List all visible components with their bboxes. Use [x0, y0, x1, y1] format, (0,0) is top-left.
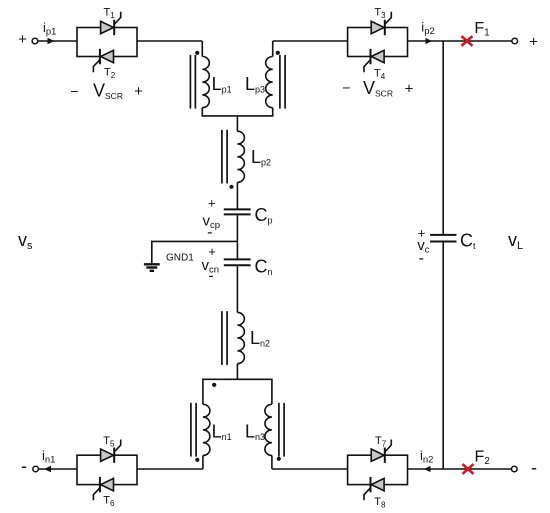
- wire right bus upper: [442, 41, 444, 234]
- capacitor Cn: [224, 258, 251, 260]
- dot Lp2 polarity: [229, 185, 233, 189]
- thyristor T8: [371, 478, 384, 490]
- current arrow i_n2: [424, 466, 431, 472]
- dot Ln3 bottom polarity: [277, 457, 281, 461]
- dot Lp1 polarity: [195, 51, 199, 55]
- core Lp2: [221, 130, 223, 184]
- wire Ln3 bottom: [271, 456, 273, 470]
- thyristor T2: [101, 50, 114, 62]
- SCR pair box (T3/T4): [348, 28, 408, 57]
- thyristor T5: [101, 449, 114, 461]
- SCR pair box (T1/T2): [77, 28, 137, 57]
- thyristor T6: [101, 478, 114, 490]
- svg-text:+: +: [529, 34, 538, 51]
- svg-text:-: -: [419, 250, 424, 267]
- thyristor T7: [371, 449, 384, 461]
- terminal circle bottom-right: [512, 466, 518, 472]
- svg-text:+: +: [208, 244, 216, 259]
- current arrow i_n1: [44, 466, 51, 472]
- wire top-left input: [38, 40, 77, 42]
- core Ln1: [190, 403, 192, 457]
- core Ln3: [278, 403, 280, 457]
- dot Lp3 polarity: [276, 51, 280, 55]
- wire Ln1 bottom: [202, 456, 204, 470]
- wire box1 to transformer: [137, 40, 202, 42]
- wire Ln1 to box2: [137, 468, 203, 470]
- dot Ln1 bottom polarity: [195, 458, 199, 462]
- wire Cp to Cn: [236, 215, 238, 258]
- wire ground tap: [152, 241, 238, 263]
- thyristor T4: [371, 50, 384, 62]
- svg-text:+: +: [405, 81, 414, 98]
- svg-text:GND1: GND1: [166, 252, 194, 263]
- svg-text:-: -: [531, 458, 537, 478]
- svg-text:+: +: [18, 31, 27, 48]
- current arrow i_p2: [426, 38, 433, 44]
- wire box4 to terminal: [408, 468, 512, 470]
- wire bottom transformer T: [203, 379, 272, 404]
- inductor Ln3: [265, 404, 272, 455]
- capacitor Cp: [224, 208, 251, 210]
- core Lp3: [279, 55, 281, 109]
- wire Ln2 to bottom T: [236, 364, 238, 380]
- SCR pair box (T5/T6): [77, 455, 137, 484]
- svg-text:-: -: [207, 224, 212, 241]
- core Ln2: [221, 311, 223, 365]
- thyristor T3: [371, 21, 384, 33]
- svg-text:−: −: [70, 83, 78, 99]
- svg-text:-: -: [21, 456, 27, 476]
- dot Ln1 top polarity: [212, 383, 216, 387]
- fuse mark F1: [462, 36, 473, 46]
- wire box3 to terminal: [408, 40, 512, 42]
- terminal circle top-right: [512, 38, 518, 44]
- terminal circle top-left: [32, 38, 38, 44]
- terminal circle bottom-left: [33, 466, 39, 472]
- wire Lp3 vertical: [272, 41, 274, 57]
- wire transformer bottom T: [202, 108, 272, 116]
- wire box2 to terminal: [38, 468, 77, 470]
- svg-text:−: −: [342, 80, 350, 96]
- svg-text:-: -: [208, 268, 213, 285]
- inductor Ln2: [237, 312, 244, 363]
- current arrow i_p1: [48, 38, 55, 44]
- wire right bus lower: [442, 242, 444, 469]
- wire Lp1 vertical: [201, 41, 203, 57]
- thyristor T1: [101, 21, 114, 33]
- wire Cn to Ln2: [236, 266, 238, 312]
- core Lp1: [189, 55, 191, 109]
- wire center stub: [236, 116, 238, 131]
- inductor Lp3: [266, 57, 273, 108]
- capacitor Ct: [430, 234, 456, 236]
- wire Lp2 to Cp: [236, 182, 238, 208]
- ground GND1: [144, 263, 160, 265]
- wire Ln3 to box4: [272, 468, 348, 470]
- inductor Ln1: [203, 404, 210, 455]
- inductor Lp1: [202, 57, 209, 108]
- SCR pair box (T7/T8): [348, 455, 408, 484]
- svg-text:+: +: [134, 83, 143, 100]
- fuse mark F2: [463, 464, 474, 474]
- wire transformer to box3: [273, 40, 348, 42]
- svg-text:+: +: [208, 196, 216, 211]
- inductor Lp2: [237, 131, 244, 182]
